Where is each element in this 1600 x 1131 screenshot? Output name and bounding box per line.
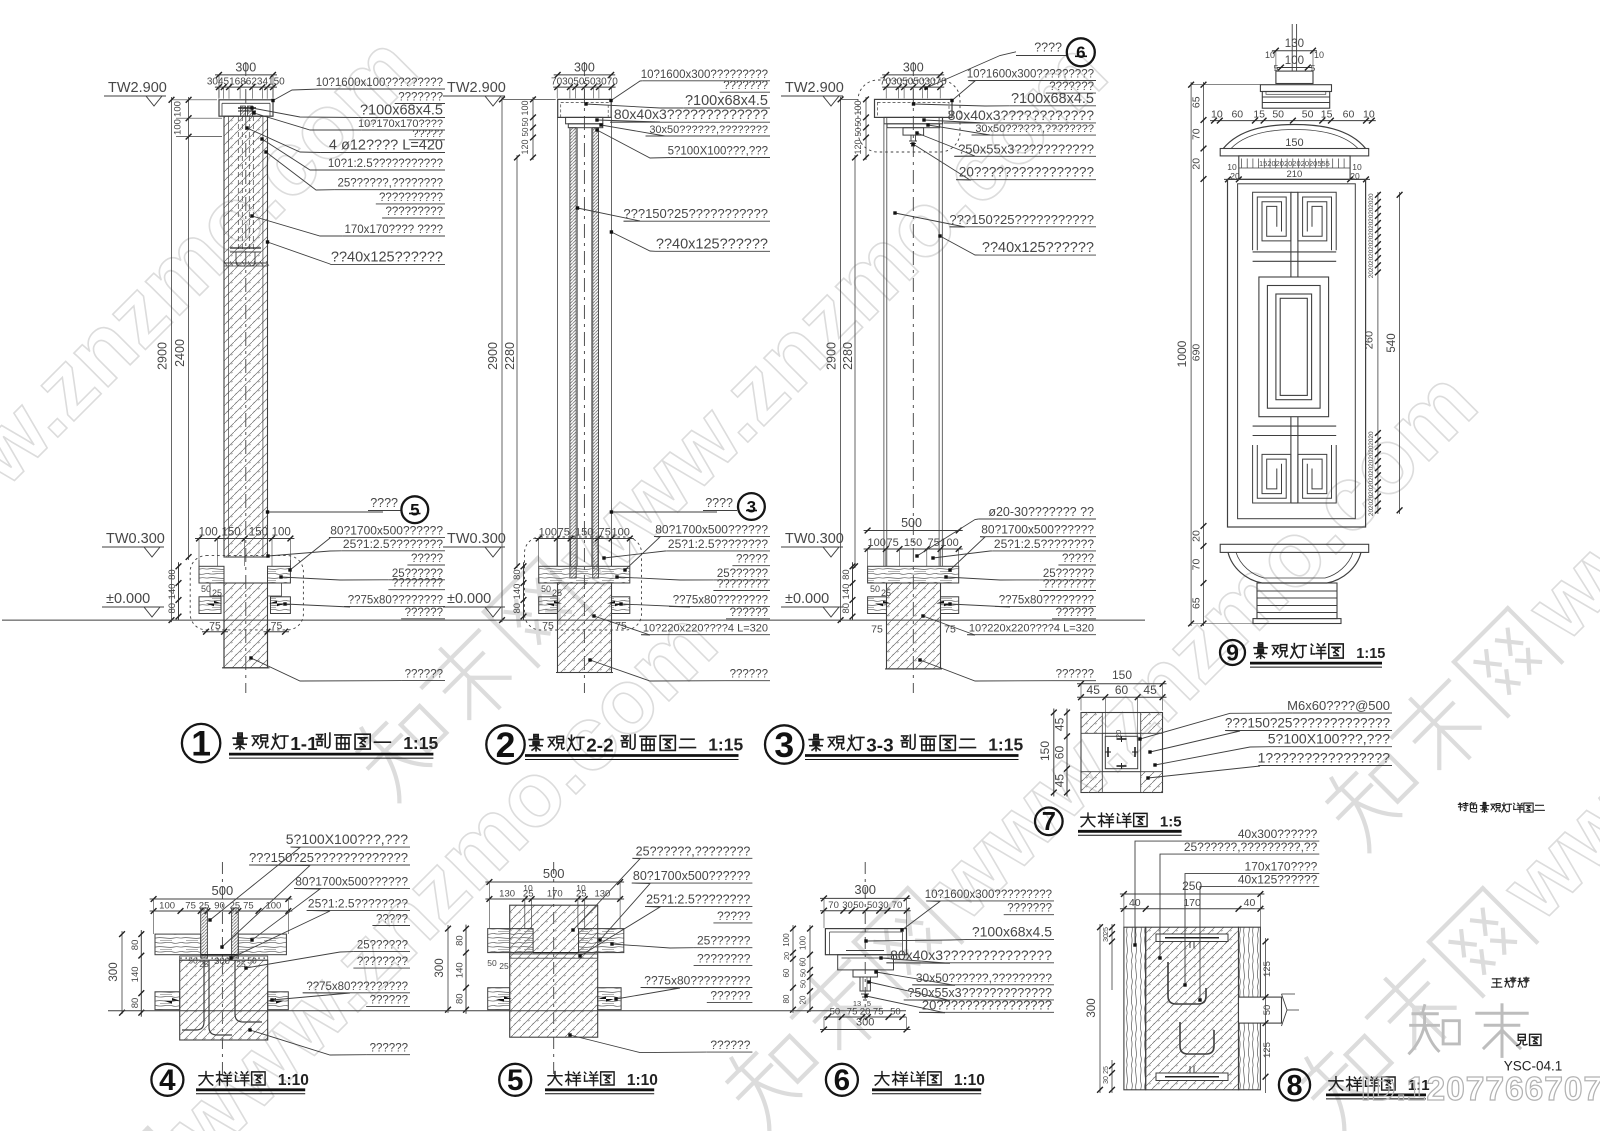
- svg-text:ID.1207766707: ID.1207766707: [1361, 1071, 1600, 1108]
- svg-text:150: 150: [222, 527, 241, 539]
- svg-text:ø20-30??????? ??: ø20-30??????? ??: [988, 505, 1094, 519]
- svg-text:20: 20: [782, 952, 791, 960]
- svg-text:75: 75: [944, 624, 956, 636]
- svg-text:25??????: 25??????: [357, 940, 408, 952]
- svg-text:10?1600x300?????????: 10?1600x300?????????: [925, 889, 1052, 901]
- svg-text:20: 20: [1191, 158, 1203, 170]
- svg-text:??75x80?????????: ??75x80?????????: [644, 974, 750, 988]
- svg-text:140: 140: [512, 584, 523, 600]
- svg-text:10: 10: [576, 883, 586, 893]
- svg-text:125: 125: [1262, 1042, 1273, 1058]
- svg-text:50: 50: [799, 980, 808, 988]
- svg-text:5: 5: [410, 501, 419, 520]
- svg-text:25?1:2.5????????: 25?1:2.5????????: [668, 537, 768, 551]
- svg-text:??????: ??????: [710, 989, 750, 1003]
- svg-text:30: 30: [878, 900, 889, 911]
- svg-text:??????: ??????: [1056, 607, 1094, 619]
- svg-text:1:15: 1:15: [708, 735, 743, 755]
- svg-text:100: 100: [173, 101, 184, 117]
- svg-text:1-1: 1-1: [290, 734, 317, 755]
- svg-text:130: 130: [499, 889, 515, 900]
- svg-text:50: 50: [854, 117, 863, 126]
- svg-text:100: 100: [853, 100, 863, 115]
- svg-text:4 ø12???? L=420: 4 ø12???? L=420: [329, 138, 443, 154]
- svg-text:M6x60????@500: M6x60????@500: [1287, 698, 1390, 713]
- svg-text:6: 6: [834, 1064, 850, 1097]
- svg-text:??????: ??????: [710, 1038, 750, 1052]
- svg-text:8: 8: [1286, 1070, 1302, 1102]
- svg-text:5?100X100???,???: 5?100X100???,???: [668, 146, 768, 158]
- svg-text:300: 300: [108, 962, 120, 981]
- svg-text:10?1:2.5???????????: 10?1:2.5???????????: [328, 158, 443, 170]
- svg-text:50: 50: [521, 117, 530, 126]
- svg-text:300: 300: [235, 61, 256, 75]
- svg-text:5?100X100???,???: 5?100X100???,???: [1268, 731, 1390, 747]
- svg-text:1:10: 1:10: [954, 1072, 985, 1089]
- svg-text:????????: ????????: [1043, 579, 1094, 591]
- svg-text:40x125??????: 40x125??????: [1238, 873, 1318, 887]
- svg-text:10: 10: [1265, 50, 1275, 60]
- svg-text:2900: 2900: [156, 342, 170, 370]
- svg-text:100: 100: [539, 527, 557, 539]
- svg-text:300: 300: [214, 956, 230, 967]
- svg-text:140: 140: [130, 966, 141, 982]
- svg-text:170: 170: [1183, 897, 1201, 909]
- svg-text:2400: 2400: [173, 339, 187, 367]
- svg-text:10: 10: [523, 883, 533, 893]
- svg-text:50: 50: [247, 956, 257, 966]
- svg-text:????????: ????????: [392, 578, 443, 590]
- svg-text:75: 75: [243, 901, 254, 912]
- svg-text:20: 20: [1368, 473, 1375, 481]
- svg-text:25?1:2.5????????: 25?1:2.5????????: [308, 896, 408, 910]
- svg-text:TW2.900: TW2.900: [785, 80, 844, 96]
- svg-text:50: 50: [1272, 109, 1284, 121]
- svg-text:75: 75: [209, 620, 221, 632]
- svg-text:5: 5: [507, 1064, 523, 1097]
- svg-text:20: 20: [1368, 264, 1375, 272]
- svg-text:25??????,????????: 25??????,????????: [636, 844, 751, 858]
- svg-text:25: 25: [1103, 927, 1110, 935]
- svg-text:125: 125: [1262, 961, 1273, 977]
- svg-text:50: 50: [867, 900, 878, 911]
- svg-text:2900: 2900: [825, 342, 839, 370]
- svg-text:170x170????: 170x170????: [1245, 860, 1318, 874]
- svg-text:20: 20: [1368, 466, 1375, 474]
- svg-text:1:15: 1:15: [1356, 646, 1385, 662]
- svg-text:15: 15: [1253, 109, 1265, 121]
- svg-text:40x300??????: 40x300??????: [1238, 827, 1318, 841]
- svg-text:???150?25?????????????: ???150?25?????????????: [249, 850, 408, 865]
- svg-text:20: 20: [1368, 242, 1375, 250]
- svg-text:4: 4: [159, 1064, 176, 1097]
- svg-text:300: 300: [903, 61, 924, 75]
- svg-text:40: 40: [1244, 897, 1256, 909]
- svg-text:80: 80: [130, 940, 141, 951]
- svg-text:80?1700x500??????: 80?1700x500??????: [633, 869, 751, 883]
- svg-text:20: 20: [1368, 249, 1375, 257]
- svg-text:?????: ?????: [376, 914, 408, 926]
- svg-text:100: 100: [199, 527, 218, 539]
- svg-text:80?1700x500??????: 80?1700x500??????: [981, 523, 1094, 537]
- svg-text:25: 25: [881, 588, 891, 598]
- svg-text:50: 50: [853, 900, 864, 911]
- svg-text:25??????,?????????,??: 25??????,?????????,??: [1184, 840, 1318, 854]
- svg-text:9: 9: [1226, 640, 1239, 666]
- svg-text:1????????????????: 1????????????????: [1258, 750, 1391, 766]
- svg-text:150: 150: [249, 527, 268, 539]
- svg-text:300: 300: [574, 61, 595, 75]
- svg-text:20????????????????: 20????????????????: [922, 997, 1052, 1012]
- svg-text:150: 150: [904, 537, 922, 549]
- svg-text:170x170???? ????: 170x170???? ????: [345, 224, 444, 236]
- svg-text:30x50??????,????????: 30x50??????,????????: [649, 124, 768, 136]
- svg-text:10?1600x100?????????: 10?1600x100?????????: [316, 77, 443, 89]
- svg-text:20: 20: [1368, 487, 1375, 495]
- svg-text:30x50??????,????????: 30x50??????,????????: [975, 123, 1094, 135]
- svg-text:TW0.300: TW0.300: [785, 531, 844, 547]
- svg-text:6: 6: [1076, 43, 1085, 62]
- svg-text:20: 20: [1368, 256, 1375, 264]
- svg-text:1: 1: [191, 724, 211, 764]
- svg-text:75: 75: [558, 527, 570, 539]
- svg-text:??????: ??????: [405, 607, 443, 619]
- svg-text:45: 45: [1143, 683, 1157, 697]
- svg-text:20: 20: [1368, 431, 1375, 439]
- svg-text:20: 20: [1368, 459, 1375, 467]
- svg-text:80x40x3?????????????: 80x40x3?????????????: [614, 106, 768, 122]
- svg-text:60: 60: [799, 957, 808, 966]
- svg-text:1:10: 1:10: [627, 1072, 658, 1089]
- svg-text:?????: ?????: [736, 554, 768, 566]
- svg-text:??????: ??????: [730, 669, 768, 681]
- svg-text:??75x80????????: ??75x80????????: [348, 594, 443, 606]
- svg-text:300: 300: [1086, 998, 1098, 1017]
- svg-text:65: 65: [1191, 96, 1203, 108]
- svg-text:20: 20: [1368, 200, 1375, 208]
- svg-text:100: 100: [1285, 55, 1304, 67]
- svg-text:??75x80????????: ??75x80????????: [673, 594, 768, 606]
- svg-text:80: 80: [512, 603, 523, 614]
- svg-text:25?1:2.5????????: 25?1:2.5????????: [646, 892, 750, 906]
- svg-text:100: 100: [940, 537, 958, 549]
- svg-text:5?100X100???,???: 5?100X100???,???: [286, 831, 408, 847]
- svg-text:50: 50: [487, 958, 497, 968]
- svg-text:45: 45: [1087, 683, 1101, 697]
- svg-text:???150?25???????????: ???150?25???????????: [623, 206, 768, 221]
- svg-text:±0.000: ±0.000: [106, 591, 150, 607]
- svg-text:70: 70: [1191, 559, 1203, 571]
- svg-text:50: 50: [541, 584, 551, 594]
- svg-text:25?1:2.5????????: 25?1:2.5????????: [994, 537, 1094, 551]
- svg-text:140: 140: [167, 584, 178, 600]
- svg-text:20: 20: [1368, 509, 1375, 517]
- svg-text:25?1:2.5????????: 25?1:2.5????????: [343, 537, 443, 551]
- svg-text:??40x125??????: ??40x125??????: [982, 240, 1094, 256]
- svg-text:???150?25???????????: ???150?25???????????: [949, 212, 1094, 227]
- svg-text:20: 20: [1368, 193, 1375, 201]
- svg-text:75: 75: [615, 620, 627, 632]
- svg-text:TW0.300: TW0.300: [447, 531, 506, 547]
- svg-text:1:10: 1:10: [278, 1072, 309, 1089]
- svg-text:TW0.300: TW0.300: [106, 531, 165, 547]
- svg-text:±0.000: ±0.000: [447, 591, 491, 607]
- svg-text:80: 80: [841, 569, 852, 580]
- svg-text:50: 50: [521, 127, 530, 136]
- svg-text:20: 20: [1368, 494, 1375, 502]
- svg-text:TW2.900: TW2.900: [447, 80, 506, 96]
- svg-text:20: 20: [1191, 530, 1203, 542]
- svg-text:80: 80: [782, 994, 791, 1003]
- svg-text:140: 140: [841, 584, 852, 600]
- svg-text:75: 75: [599, 527, 611, 539]
- svg-text:70: 70: [892, 900, 903, 911]
- svg-text:75: 75: [271, 620, 283, 632]
- svg-text:20: 20: [1368, 235, 1375, 243]
- svg-text:500: 500: [901, 516, 922, 530]
- svg-text:50: 50: [799, 969, 808, 977]
- svg-text:?????: ?????: [411, 553, 443, 565]
- svg-text:130: 130: [594, 889, 610, 900]
- svg-text:540: 540: [1386, 333, 1398, 352]
- svg-text:????: ????: [705, 496, 733, 510]
- svg-text:60: 60: [1053, 746, 1067, 760]
- svg-text:15: 15: [1321, 109, 1333, 121]
- svg-text:20: 20: [1368, 271, 1375, 279]
- svg-text:?????: ?????: [717, 909, 751, 923]
- svg-text:50: 50: [890, 1007, 901, 1018]
- svg-text:50: 50: [830, 1007, 841, 1018]
- svg-text:80: 80: [130, 998, 141, 1009]
- svg-text:20: 20: [1368, 207, 1375, 215]
- svg-text:1:15: 1:15: [403, 733, 438, 753]
- svg-text:10?220x220????4 L=320: 10?220x220????4 L=320: [643, 623, 768, 635]
- svg-text:60: 60: [1115, 683, 1129, 697]
- svg-text:?100x68x4.5: ?100x68x4.5: [1011, 91, 1094, 107]
- svg-text:80: 80: [167, 569, 178, 580]
- svg-text:15202020202020555: 15202020202020555: [1259, 159, 1330, 168]
- svg-text:75: 75: [871, 624, 883, 636]
- svg-text:210: 210: [1286, 169, 1302, 180]
- svg-text:20: 20: [1368, 221, 1375, 229]
- svg-text:??????: ??????: [370, 995, 408, 1007]
- svg-text:????????: ????????: [697, 952, 751, 966]
- svg-text:100: 100: [782, 933, 791, 947]
- svg-text:25: 25: [499, 961, 509, 971]
- svg-text:3: 3: [747, 498, 756, 517]
- svg-text:2280: 2280: [503, 342, 517, 370]
- svg-text:100: 100: [520, 100, 530, 115]
- svg-text:70: 70: [828, 900, 839, 911]
- svg-text:60: 60: [1231, 109, 1243, 121]
- svg-text:80: 80: [841, 603, 852, 614]
- svg-text:25: 25: [1103, 1066, 1110, 1074]
- svg-text:??????: ??????: [370, 1043, 408, 1055]
- svg-text:???????: ???????: [1007, 903, 1052, 915]
- svg-text:170: 170: [547, 889, 563, 900]
- svg-text:80x40x3????????????: 80x40x3????????????: [948, 107, 1095, 123]
- svg-text:2280: 2280: [841, 342, 855, 370]
- svg-text:1:15: 1:15: [988, 735, 1023, 755]
- svg-text:100: 100: [265, 901, 281, 912]
- svg-text:75: 75: [542, 620, 554, 632]
- svg-text:2900: 2900: [486, 342, 500, 370]
- svg-text:????????: ????????: [717, 579, 768, 591]
- svg-text:?50x55x3???????????: ?50x55x3???????????: [958, 141, 1094, 156]
- svg-text:50: 50: [854, 127, 863, 136]
- svg-text:20: 20: [1114, 730, 1123, 738]
- svg-text:??40x125??????: ??40x125??????: [331, 249, 443, 265]
- svg-text:80: 80: [167, 603, 178, 614]
- svg-text:150: 150: [1112, 668, 1132, 682]
- svg-text:2: 2: [496, 725, 516, 765]
- svg-text:50: 50: [188, 956, 198, 966]
- svg-text:TW2.900: TW2.900: [108, 80, 167, 96]
- svg-text:60: 60: [782, 968, 791, 977]
- svg-text:????????: ????????: [357, 956, 408, 968]
- svg-text:45: 45: [1053, 774, 1067, 788]
- svg-text:75: 75: [873, 1007, 884, 1018]
- svg-text:80x40x3??????????????: 80x40x3??????????????: [890, 947, 1052, 963]
- svg-text:75: 75: [185, 901, 196, 912]
- svg-text:±0.000: ±0.000: [785, 591, 829, 607]
- svg-text:50: 50: [201, 584, 211, 594]
- svg-text:100: 100: [173, 119, 184, 135]
- svg-text:100: 100: [798, 936, 808, 950]
- svg-text:20: 20: [1368, 214, 1375, 222]
- svg-text:60: 60: [1343, 109, 1355, 121]
- svg-text:10?220x220????4 L=320: 10?220x220????4 L=320: [969, 623, 1094, 635]
- svg-text:100: 100: [159, 901, 175, 912]
- svg-text:140: 140: [455, 962, 466, 978]
- svg-text:1:5: 1:5: [1160, 814, 1182, 831]
- svg-text:703050503070: 703050503070: [551, 77, 618, 88]
- svg-text:150: 150: [575, 527, 593, 539]
- svg-text:?????????: ?????????: [385, 206, 443, 218]
- svg-text:75: 75: [886, 537, 898, 549]
- svg-text:20: 20: [1368, 438, 1375, 446]
- svg-text:1000: 1000: [1175, 340, 1189, 367]
- svg-text:30: 30: [1103, 934, 1110, 942]
- svg-text:300: 300: [434, 958, 446, 977]
- svg-text:80?1700x500??????: 80?1700x500??????: [330, 523, 443, 537]
- svg-text:20: 20: [1368, 480, 1375, 488]
- svg-text:50: 50: [870, 584, 880, 594]
- svg-text:??????: ??????: [1056, 669, 1094, 681]
- svg-text:3: 3: [774, 725, 794, 765]
- svg-text:120: 120: [520, 139, 530, 154]
- svg-text:10: 10: [1314, 50, 1324, 60]
- svg-text:??75x80?????????: ??75x80?????????: [306, 981, 408, 993]
- svg-text:??????????: ??????????: [379, 192, 443, 204]
- svg-text:20: 20: [1368, 445, 1375, 453]
- svg-text:???????: ???????: [723, 80, 768, 92]
- svg-text:80: 80: [455, 993, 466, 1004]
- svg-text:150: 150: [1285, 137, 1303, 149]
- svg-text:120: 120: [853, 139, 863, 154]
- svg-text:25: 25: [199, 959, 209, 969]
- svg-text:80: 80: [512, 569, 523, 580]
- svg-text:20: 20: [799, 995, 808, 1004]
- svg-text:30: 30: [1103, 1076, 1110, 1084]
- svg-text:150: 150: [1038, 741, 1052, 761]
- svg-text:20: 20: [1368, 228, 1375, 236]
- svg-text:25??????,????????: 25??????,????????: [337, 178, 443, 190]
- svg-text:10?1600x300?????????: 10?1600x300?????????: [641, 69, 768, 81]
- svg-text:3-3: 3-3: [866, 736, 893, 757]
- svg-text:50: 50: [1262, 1005, 1273, 1016]
- svg-text:????: ????: [370, 496, 398, 510]
- svg-text:130: 130: [1285, 38, 1304, 50]
- svg-text:70: 70: [1191, 128, 1203, 140]
- svg-text:25??????: 25??????: [697, 934, 751, 948]
- svg-text:??40x125??????: ??40x125??????: [656, 236, 768, 252]
- svg-text:25: 25: [212, 588, 222, 598]
- svg-text:??75x80????????: ??75x80????????: [999, 594, 1094, 606]
- svg-text:260: 260: [1364, 331, 1376, 349]
- svg-text:??????: ??????: [730, 607, 768, 619]
- svg-text:45: 45: [1053, 717, 1067, 731]
- svg-text:???150?25?????????????: ???150?25?????????????: [1225, 716, 1390, 731]
- svg-text:7: 7: [1042, 808, 1056, 836]
- svg-text:100: 100: [868, 537, 886, 549]
- svg-text:80?1700x500??????: 80?1700x500??????: [295, 874, 408, 888]
- svg-text:50: 50: [1302, 109, 1314, 121]
- svg-text:80: 80: [455, 935, 466, 946]
- svg-text:30: 30: [842, 900, 853, 911]
- svg-text:2-2: 2-2: [586, 736, 613, 757]
- svg-text:65: 65: [1191, 597, 1203, 609]
- svg-text:690: 690: [1191, 344, 1203, 362]
- svg-text:30x50??????,?????????: 30x50??????,?????????: [916, 971, 1052, 985]
- svg-text:?????: ?????: [1062, 553, 1094, 565]
- svg-text:100: 100: [272, 527, 291, 539]
- svg-text:?100x68x4.5: ?100x68x4.5: [360, 103, 443, 119]
- svg-text:20: 20: [1368, 502, 1375, 510]
- svg-text:20: 20: [1368, 452, 1375, 460]
- svg-text:25: 25: [552, 588, 562, 598]
- svg-text:?100x68x4.5: ?100x68x4.5: [972, 923, 1052, 939]
- svg-text:????: ????: [1034, 41, 1062, 55]
- svg-text:??????: ??????: [405, 669, 443, 681]
- svg-text:300: 300: [856, 1017, 874, 1029]
- svg-text:10?1600x300?????????: 10?1600x300?????????: [967, 69, 1094, 81]
- svg-text:100: 100: [612, 527, 630, 539]
- svg-text:20????????????????: 20????????????????: [959, 165, 1094, 180]
- svg-text:80?1700x500??????: 80?1700x500??????: [655, 522, 768, 536]
